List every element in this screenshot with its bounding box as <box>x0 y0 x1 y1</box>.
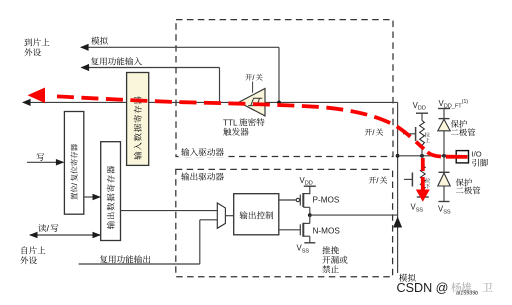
label on/off pull-up <box>365 128 383 135</box>
arrow read/write bidirectional <box>30 234 100 236</box>
red signal path (injection) <box>57 96 424 149</box>
arrow set/reset to output register <box>84 196 100 198</box>
node junction pull resistors <box>420 154 424 158</box>
label write <box>36 153 44 161</box>
svg-text:VSS: VSS <box>411 203 424 214</box>
switch pull-down <box>404 178 412 180</box>
arrow write <box>27 161 63 163</box>
input driver dashed box <box>176 20 393 157</box>
label analog bottom <box>399 274 416 282</box>
diode protection top <box>443 109 445 119</box>
ground VSS diode <box>439 201 450 203</box>
node drain junction <box>308 213 312 217</box>
ground VSS pull-down <box>417 196 429 198</box>
set/reset register <box>64 112 83 215</box>
node junction riser/pin wire <box>396 154 400 158</box>
label input driver <box>179 147 229 158</box>
label protection diode bottom <box>456 178 472 186</box>
label alternate function input <box>91 57 142 65</box>
label output driver <box>181 173 224 181</box>
I/O pin pad <box>456 151 468 163</box>
transistor N-MOS <box>299 224 301 235</box>
output driver dashed box <box>176 169 393 276</box>
node junction protection diodes <box>442 154 446 158</box>
TTL schmitt trigger <box>239 89 265 116</box>
svg-text:VSS: VSS <box>297 244 310 255</box>
svg-text:N-MOS: N-MOS <box>313 227 341 236</box>
wire P-MOS gate <box>279 199 296 201</box>
svg-text:VSS: VSS <box>438 205 451 216</box>
switch pull-up <box>403 133 416 135</box>
resistor pull-down <box>422 156 424 166</box>
svg-text:VDD: VDD <box>300 176 313 187</box>
svg-text:VDD: VDD <box>413 101 426 112</box>
svg-text:CSDN @: CSDN @ <box>397 281 449 295</box>
wire I/O pin horizontal <box>398 155 457 157</box>
power VDD P-MOS <box>304 185 316 187</box>
wire alternate function output <box>79 263 200 265</box>
wire analog tap (top) <box>81 46 279 48</box>
label analog top <box>91 37 108 45</box>
resistor pull-up <box>421 113 423 120</box>
output data register <box>101 142 121 241</box>
label from on-chip peripheral <box>22 246 46 254</box>
transistor P-MOS <box>299 195 301 206</box>
label alternate function output <box>100 255 150 263</box>
wire N-MOS gate <box>279 229 300 231</box>
svg-text:P-MOS: P-MOS <box>313 196 340 205</box>
wire mux to output control <box>225 215 234 217</box>
svg-text:I/O: I/O <box>472 149 482 158</box>
label on/off output <box>369 176 387 183</box>
diode protection bottom <box>443 156 445 173</box>
label to on-chip peripheral <box>24 38 49 46</box>
node junction analog/main <box>277 101 281 105</box>
wire alternate function input tap <box>82 67 220 69</box>
input data register (yellow) <box>127 73 149 166</box>
svg-text:ai15939b: ai15939b <box>456 290 478 296</box>
output control box <box>234 194 279 235</box>
mux <box>217 203 225 228</box>
svg-text:TTL: TTL <box>223 118 238 127</box>
wire main I/O bus to schmitt trigger <box>23 101 398 103</box>
label push-pull open-drain or disabled <box>322 246 339 254</box>
arrow analog up <box>393 217 402 228</box>
ground VSS N-MOS <box>304 242 315 244</box>
wire vertical pin riser <box>397 102 399 273</box>
label read/write <box>38 224 58 232</box>
wire output data register to mux <box>121 210 218 212</box>
label protection diode top <box>451 120 467 128</box>
label on/off schmitt <box>245 74 262 81</box>
wire drain to pin riser <box>310 214 398 216</box>
red arrow down to VSS <box>421 158 425 190</box>
